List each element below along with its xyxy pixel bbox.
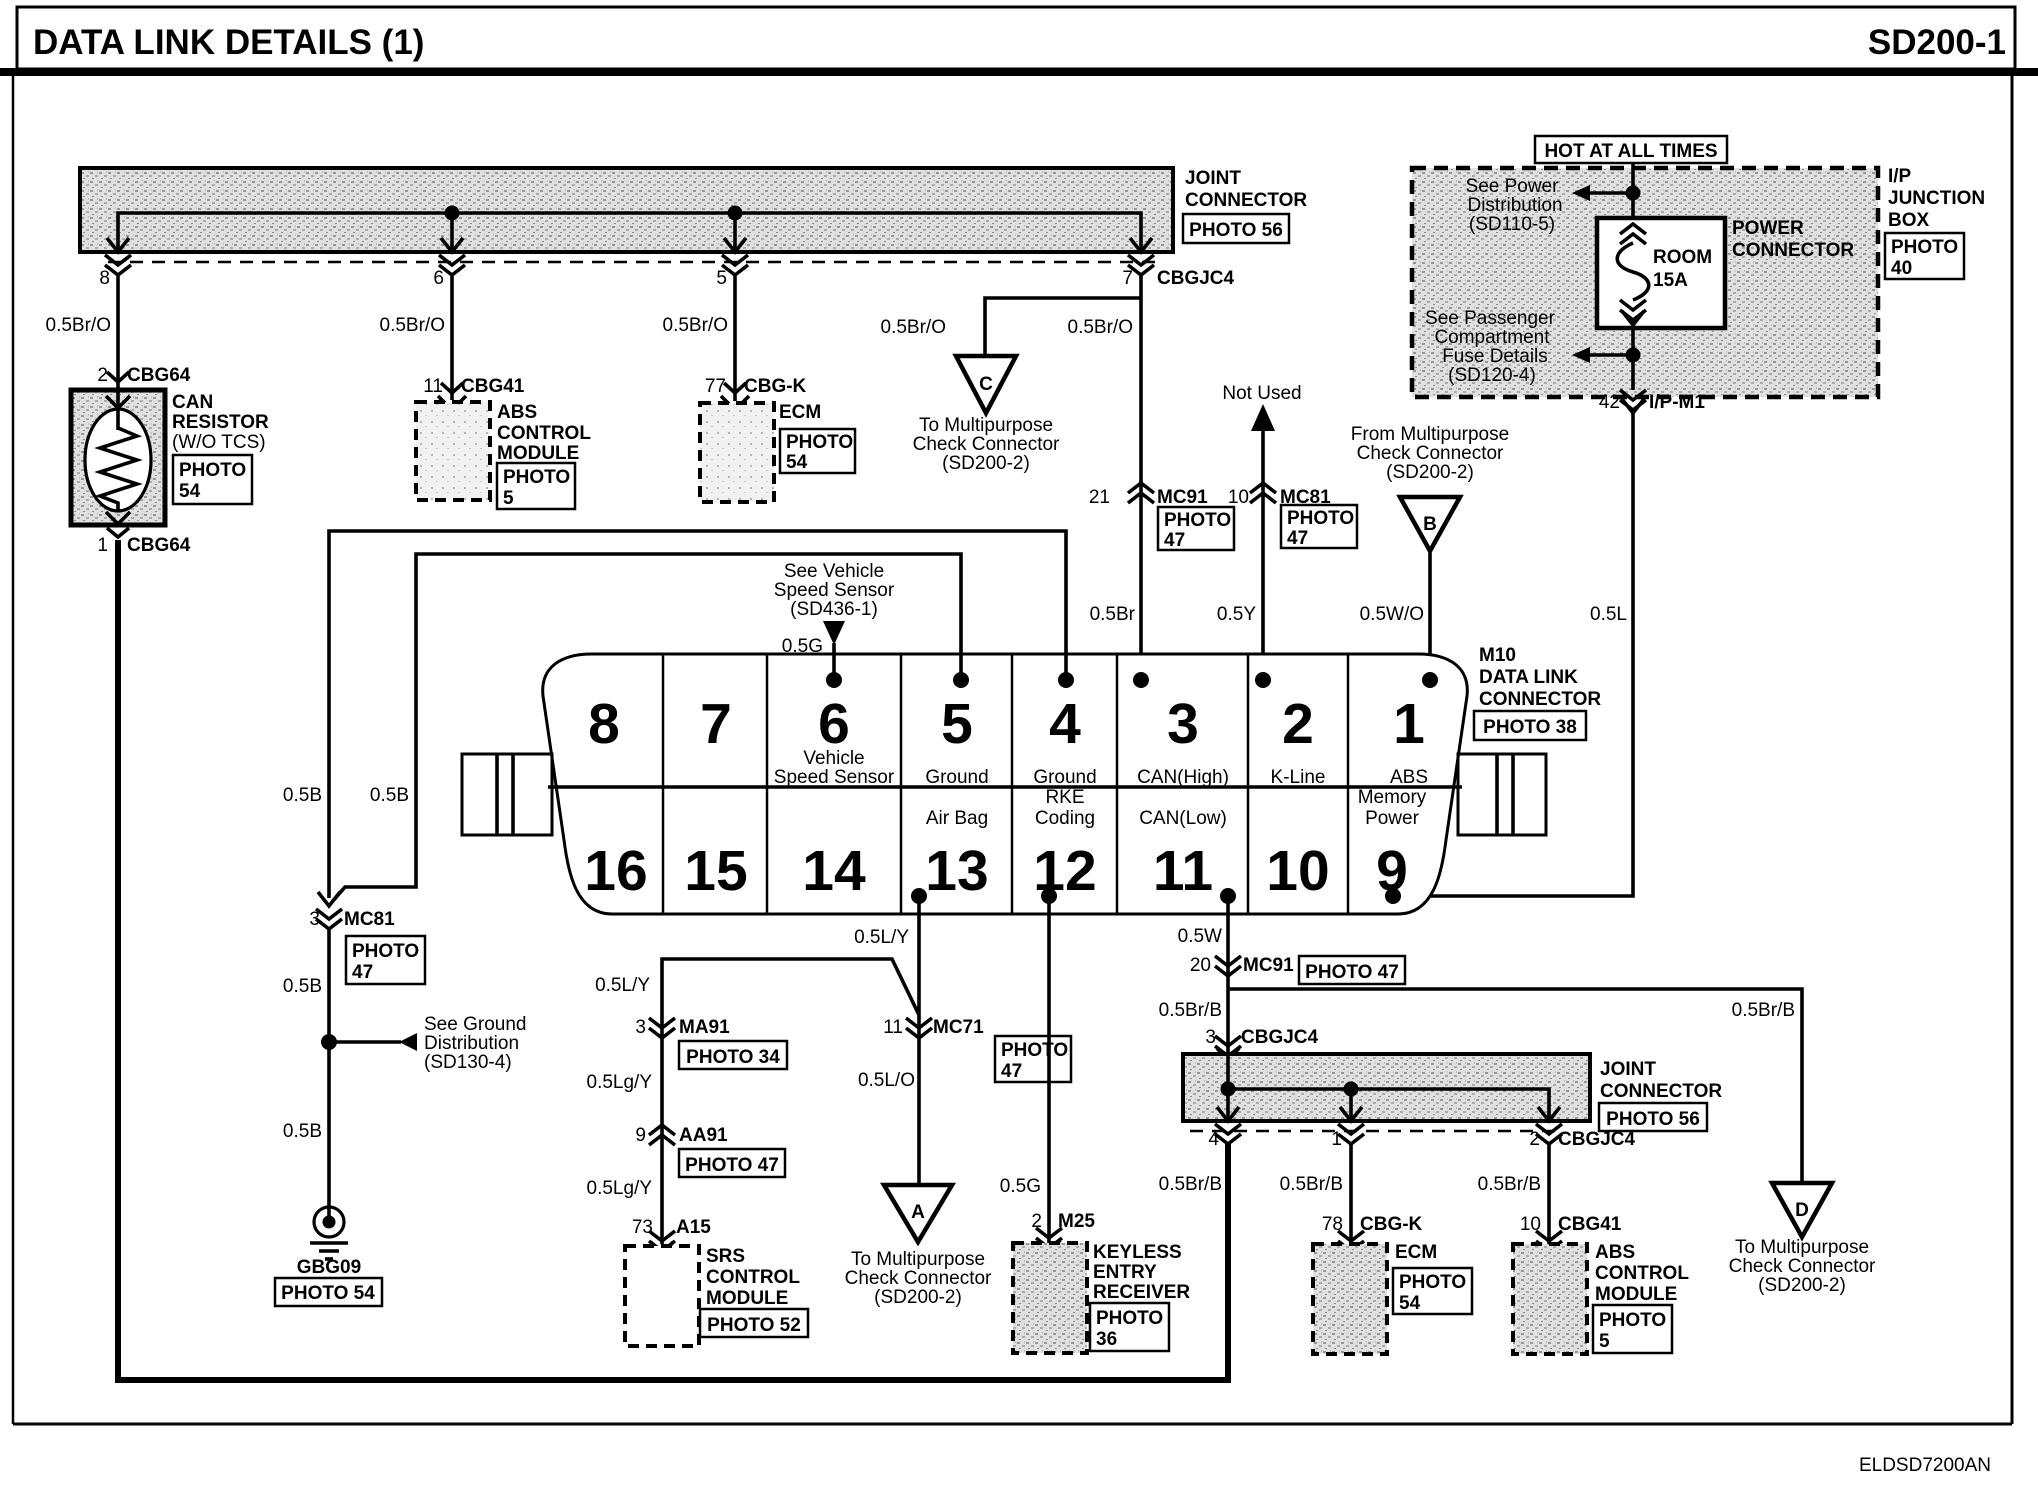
svg-text:Speed Sensor: Speed Sensor bbox=[774, 580, 895, 601]
svg-text:CONNECTOR: CONNECTOR bbox=[1185, 190, 1307, 211]
svg-text:0.5Br/O: 0.5Br/O bbox=[881, 317, 946, 338]
svg-text:PHOTO 56: PHOTO 56 bbox=[1189, 220, 1283, 241]
svg-text:0.5L/O: 0.5L/O bbox=[858, 1070, 915, 1091]
svg-text:(SD200-2): (SD200-2) bbox=[1758, 1275, 1846, 1296]
svg-text:0.5B: 0.5B bbox=[283, 1121, 322, 1142]
svg-text:CBGJC4: CBGJC4 bbox=[1241, 1027, 1319, 1048]
svg-text:Check Connector: Check Connector bbox=[913, 434, 1060, 455]
svg-text:ECM: ECM bbox=[779, 402, 821, 423]
svg-text:14: 14 bbox=[802, 839, 866, 903]
svg-text:SD200-1: SD200-1 bbox=[1868, 23, 2006, 62]
svg-text:AA91: AA91 bbox=[679, 1125, 728, 1146]
svg-text:See Passenger: See Passenger bbox=[1425, 308, 1556, 329]
svg-text:Check Connector: Check Connector bbox=[1357, 443, 1504, 464]
svg-text:CBG41: CBG41 bbox=[461, 376, 525, 397]
svg-text:16: 16 bbox=[584, 839, 647, 903]
svg-text:6: 6 bbox=[818, 692, 850, 756]
svg-text:4: 4 bbox=[1049, 692, 1081, 756]
svg-text:0.5Lg/Y: 0.5Lg/Y bbox=[587, 1072, 653, 1093]
svg-text:4: 4 bbox=[1208, 1129, 1219, 1150]
svg-text:POWER: POWER bbox=[1732, 218, 1804, 239]
svg-text:ABS: ABS bbox=[1595, 1242, 1635, 1263]
svg-text:47: 47 bbox=[1287, 528, 1308, 549]
svg-text:2: 2 bbox=[1529, 1129, 1540, 1150]
svg-text:(SD110-5): (SD110-5) bbox=[1469, 214, 1555, 235]
svg-text:47: 47 bbox=[1001, 1061, 1022, 1082]
svg-text:M25: M25 bbox=[1058, 1211, 1095, 1232]
svg-text:73: 73 bbox=[632, 1217, 653, 1238]
svg-text:HOT AT ALL TIMES: HOT AT ALL TIMES bbox=[1544, 141, 1717, 162]
svg-text:0.5G: 0.5G bbox=[782, 636, 823, 657]
svg-text:CAN: CAN bbox=[172, 392, 213, 413]
svg-text:54: 54 bbox=[179, 481, 201, 502]
svg-text:RESISTOR: RESISTOR bbox=[172, 412, 269, 433]
svg-text:PHOTO: PHOTO bbox=[179, 460, 246, 481]
svg-text:13: 13 bbox=[925, 839, 988, 903]
svg-text:CONNECTOR: CONNECTOR bbox=[1479, 689, 1601, 710]
svg-text:K-Line: K-Line bbox=[1271, 767, 1326, 788]
svg-text:0.5Br/O: 0.5Br/O bbox=[380, 315, 445, 336]
svg-text:ROOM: ROOM bbox=[1653, 247, 1712, 268]
svg-text:40: 40 bbox=[1891, 258, 1912, 279]
svg-text:Not Used: Not Used bbox=[1222, 383, 1301, 404]
svg-text:0.5B: 0.5B bbox=[370, 785, 409, 806]
svg-text:0.5Br/B: 0.5Br/B bbox=[1159, 1174, 1222, 1195]
svg-text:3: 3 bbox=[635, 1017, 646, 1038]
svg-text:See Ground: See Ground bbox=[424, 1014, 526, 1035]
svg-text:0.5Br/B: 0.5Br/B bbox=[1478, 1174, 1541, 1195]
svg-text:SRS: SRS bbox=[706, 1246, 745, 1267]
svg-text:Distribution: Distribution bbox=[1467, 195, 1562, 216]
svg-text:5: 5 bbox=[1599, 1331, 1610, 1352]
svg-text:Check Connector: Check Connector bbox=[1729, 1256, 1876, 1277]
svg-text:11: 11 bbox=[883, 1017, 903, 1038]
svg-text:5: 5 bbox=[503, 488, 514, 509]
svg-text:11: 11 bbox=[1153, 839, 1213, 903]
svg-text:PHOTO: PHOTO bbox=[503, 467, 570, 488]
svg-text:CBG64: CBG64 bbox=[127, 535, 191, 556]
svg-text:3: 3 bbox=[1167, 692, 1199, 756]
svg-text:(SD200-2): (SD200-2) bbox=[874, 1287, 962, 1308]
svg-text:PHOTO: PHOTO bbox=[1891, 237, 1958, 258]
svg-text:CBGJC4: CBGJC4 bbox=[1157, 268, 1235, 289]
svg-text:0.5L: 0.5L bbox=[1590, 604, 1627, 625]
svg-text:0.5L/Y: 0.5L/Y bbox=[854, 927, 909, 948]
svg-text:See Vehicle: See Vehicle bbox=[784, 561, 884, 582]
svg-text:54: 54 bbox=[1399, 1293, 1421, 1314]
svg-text:PHOTO: PHOTO bbox=[352, 941, 419, 962]
svg-text:5: 5 bbox=[941, 692, 973, 756]
svg-text:I/P: I/P bbox=[1888, 166, 1912, 187]
svg-text:MC91: MC91 bbox=[1157, 487, 1208, 508]
svg-text:JOINT: JOINT bbox=[1185, 168, 1241, 189]
svg-text:Check Connector: Check Connector bbox=[845, 1268, 992, 1289]
svg-text:2: 2 bbox=[97, 365, 108, 386]
svg-text:PHOTO: PHOTO bbox=[1096, 1308, 1163, 1329]
svg-text:BOX: BOX bbox=[1888, 210, 1930, 231]
svg-text:20: 20 bbox=[1190, 955, 1211, 976]
svg-text:10: 10 bbox=[1266, 839, 1329, 903]
svg-text:10: 10 bbox=[1228, 487, 1249, 508]
svg-text:JOINT: JOINT bbox=[1600, 1059, 1656, 1080]
svg-text:MODULE: MODULE bbox=[497, 443, 579, 464]
svg-text:Coding: Coding bbox=[1035, 808, 1095, 829]
svg-text:CBG41: CBG41 bbox=[1558, 1214, 1622, 1235]
svg-text:0.5Br/O: 0.5Br/O bbox=[46, 315, 111, 336]
svg-text:8: 8 bbox=[588, 692, 620, 756]
svg-text:D: D bbox=[1795, 1200, 1809, 1221]
svg-text:Air Bag: Air Bag bbox=[926, 808, 988, 829]
svg-text:(W/O TCS): (W/O TCS) bbox=[172, 432, 266, 453]
svg-text:RECEIVER: RECEIVER bbox=[1093, 1282, 1190, 1303]
svg-text:PHOTO: PHOTO bbox=[1001, 1040, 1068, 1061]
svg-text:Power: Power bbox=[1365, 808, 1420, 829]
svg-text:MC71: MC71 bbox=[933, 1017, 984, 1038]
svg-text:See Power: See Power bbox=[1466, 176, 1560, 197]
svg-text:0.5B: 0.5B bbox=[283, 976, 322, 997]
svg-text:JUNCTION: JUNCTION bbox=[1888, 188, 1985, 209]
svg-text:Vehicle: Vehicle bbox=[803, 748, 864, 769]
svg-text:ABS: ABS bbox=[1390, 767, 1428, 788]
svg-text:MC81: MC81 bbox=[344, 909, 395, 930]
svg-text:PHOTO: PHOTO bbox=[1599, 1310, 1666, 1331]
svg-text:(SD130-4): (SD130-4) bbox=[424, 1052, 512, 1073]
svg-text:PHOTO 52: PHOTO 52 bbox=[707, 1315, 801, 1336]
svg-text:MODULE: MODULE bbox=[1595, 1284, 1677, 1305]
svg-text:77: 77 bbox=[705, 376, 726, 397]
svg-text:PHOTO: PHOTO bbox=[786, 432, 853, 453]
svg-text:From Multipurpose: From Multipurpose bbox=[1351, 424, 1509, 445]
svg-text:To Multipurpose: To Multipurpose bbox=[919, 415, 1053, 436]
svg-text:ELDSD7200AN: ELDSD7200AN bbox=[1859, 1455, 1991, 1476]
svg-text:ENTRY: ENTRY bbox=[1093, 1262, 1157, 1283]
svg-text:0.5Lg/Y: 0.5Lg/Y bbox=[587, 1178, 653, 1199]
svg-text:0.5W: 0.5W bbox=[1178, 926, 1222, 947]
svg-text:KEYLESS: KEYLESS bbox=[1093, 1242, 1182, 1263]
svg-text:B: B bbox=[1423, 514, 1437, 535]
svg-text:(SD436-1): (SD436-1) bbox=[790, 599, 878, 620]
svg-text:I/P-M1: I/P-M1 bbox=[1649, 392, 1705, 413]
svg-text:CBG-K: CBG-K bbox=[1360, 1214, 1423, 1235]
svg-text:0.5Y: 0.5Y bbox=[1217, 604, 1256, 625]
svg-text:1: 1 bbox=[97, 535, 108, 556]
svg-text:1: 1 bbox=[1393, 692, 1425, 756]
svg-text:Ground: Ground bbox=[925, 767, 988, 788]
svg-text:0.5Br/B: 0.5Br/B bbox=[1280, 1174, 1343, 1195]
svg-text:PHOTO 54: PHOTO 54 bbox=[281, 1283, 375, 1304]
svg-text:47: 47 bbox=[352, 962, 373, 983]
svg-text:PHOTO 34: PHOTO 34 bbox=[686, 1047, 780, 1068]
svg-text:CBG64: CBG64 bbox=[127, 365, 191, 386]
svg-text:PHOTO 47: PHOTO 47 bbox=[1305, 962, 1399, 983]
svg-text:MC91: MC91 bbox=[1243, 955, 1294, 976]
svg-text:CONNECTOR: CONNECTOR bbox=[1600, 1081, 1722, 1102]
svg-text:(SD200-2): (SD200-2) bbox=[1386, 462, 1474, 483]
svg-text:0.5Br/B: 0.5Br/B bbox=[1159, 1000, 1222, 1021]
svg-text:Fuse Details: Fuse Details bbox=[1442, 346, 1548, 367]
svg-text:5: 5 bbox=[716, 268, 727, 289]
svg-text:0.5Br: 0.5Br bbox=[1090, 604, 1136, 625]
svg-text:11: 11 bbox=[423, 376, 443, 397]
svg-text:MODULE: MODULE bbox=[706, 1288, 788, 1309]
svg-text:GBG09: GBG09 bbox=[297, 1257, 361, 1278]
svg-text:0.5Br/O: 0.5Br/O bbox=[663, 315, 728, 336]
svg-text:(SD120-4): (SD120-4) bbox=[1448, 365, 1536, 386]
svg-text:ABS: ABS bbox=[497, 402, 537, 423]
svg-text:DATA LINK DETAILS (1): DATA LINK DETAILS (1) bbox=[33, 23, 424, 62]
svg-text:CONTROL: CONTROL bbox=[1595, 1263, 1689, 1284]
svg-text:Speed Sensor: Speed Sensor bbox=[774, 767, 895, 788]
svg-text:C: C bbox=[979, 374, 993, 395]
svg-text:PHOTO: PHOTO bbox=[1287, 508, 1354, 529]
svg-text:0.5Br/O: 0.5Br/O bbox=[1068, 317, 1133, 338]
svg-text:3: 3 bbox=[309, 909, 320, 930]
svg-text:A15: A15 bbox=[676, 1217, 711, 1238]
svg-text:To Multipurpose: To Multipurpose bbox=[1735, 1237, 1869, 1258]
svg-text:7: 7 bbox=[700, 692, 732, 756]
svg-text:Distribution: Distribution bbox=[424, 1033, 519, 1054]
svg-text:PHOTO: PHOTO bbox=[1164, 510, 1231, 531]
svg-text:(SD200-2): (SD200-2) bbox=[942, 453, 1030, 474]
svg-text:RKE: RKE bbox=[1045, 787, 1084, 808]
svg-text:CBG-K: CBG-K bbox=[744, 376, 807, 397]
svg-text:CONNECTOR: CONNECTOR bbox=[1732, 240, 1854, 261]
svg-text:0.5W/O: 0.5W/O bbox=[1360, 604, 1424, 625]
svg-text:0.5L/Y: 0.5L/Y bbox=[595, 975, 650, 996]
svg-text:0.5Br/B: 0.5Br/B bbox=[1732, 1000, 1795, 1021]
svg-text:Ground: Ground bbox=[1033, 767, 1096, 788]
svg-text:47: 47 bbox=[1164, 530, 1185, 551]
svg-text:ECM: ECM bbox=[1395, 1242, 1437, 1263]
svg-text:CONTROL: CONTROL bbox=[497, 423, 591, 444]
svg-text:7: 7 bbox=[1122, 268, 1133, 289]
svg-text:CAN(High): CAN(High) bbox=[1137, 767, 1229, 788]
svg-text:21: 21 bbox=[1089, 487, 1110, 508]
svg-text:To Multipurpose: To Multipurpose bbox=[851, 1249, 985, 1270]
svg-text:15A: 15A bbox=[1653, 270, 1688, 291]
svg-text:0.5B: 0.5B bbox=[283, 785, 322, 806]
svg-text:PHOTO 47: PHOTO 47 bbox=[685, 1155, 779, 1176]
svg-text:A: A bbox=[911, 1202, 925, 1223]
svg-text:1: 1 bbox=[1331, 1129, 1342, 1150]
svg-text:PHOTO 38: PHOTO 38 bbox=[1483, 717, 1577, 738]
svg-text:0.5G: 0.5G bbox=[1000, 1176, 1041, 1197]
svg-text:9: 9 bbox=[635, 1125, 646, 1146]
svg-text:36: 36 bbox=[1096, 1329, 1117, 1350]
svg-text:6: 6 bbox=[433, 268, 444, 289]
svg-text:54: 54 bbox=[786, 452, 808, 473]
svg-text:Memory: Memory bbox=[1358, 787, 1427, 808]
svg-text:MA91: MA91 bbox=[679, 1017, 730, 1038]
svg-text:PHOTO 56: PHOTO 56 bbox=[1606, 1109, 1700, 1130]
svg-text:2: 2 bbox=[1282, 692, 1314, 756]
svg-text:Compartment: Compartment bbox=[1434, 327, 1550, 348]
svg-text:CONTROL: CONTROL bbox=[706, 1267, 800, 1288]
svg-text:8: 8 bbox=[99, 268, 110, 289]
svg-text:CAN(Low): CAN(Low) bbox=[1139, 808, 1227, 829]
svg-text:42: 42 bbox=[1599, 392, 1620, 413]
svg-text:DATA LINK: DATA LINK bbox=[1479, 667, 1578, 688]
svg-text:M10: M10 bbox=[1479, 645, 1516, 666]
svg-text:PHOTO: PHOTO bbox=[1399, 1272, 1466, 1293]
svg-text:15: 15 bbox=[684, 839, 747, 903]
